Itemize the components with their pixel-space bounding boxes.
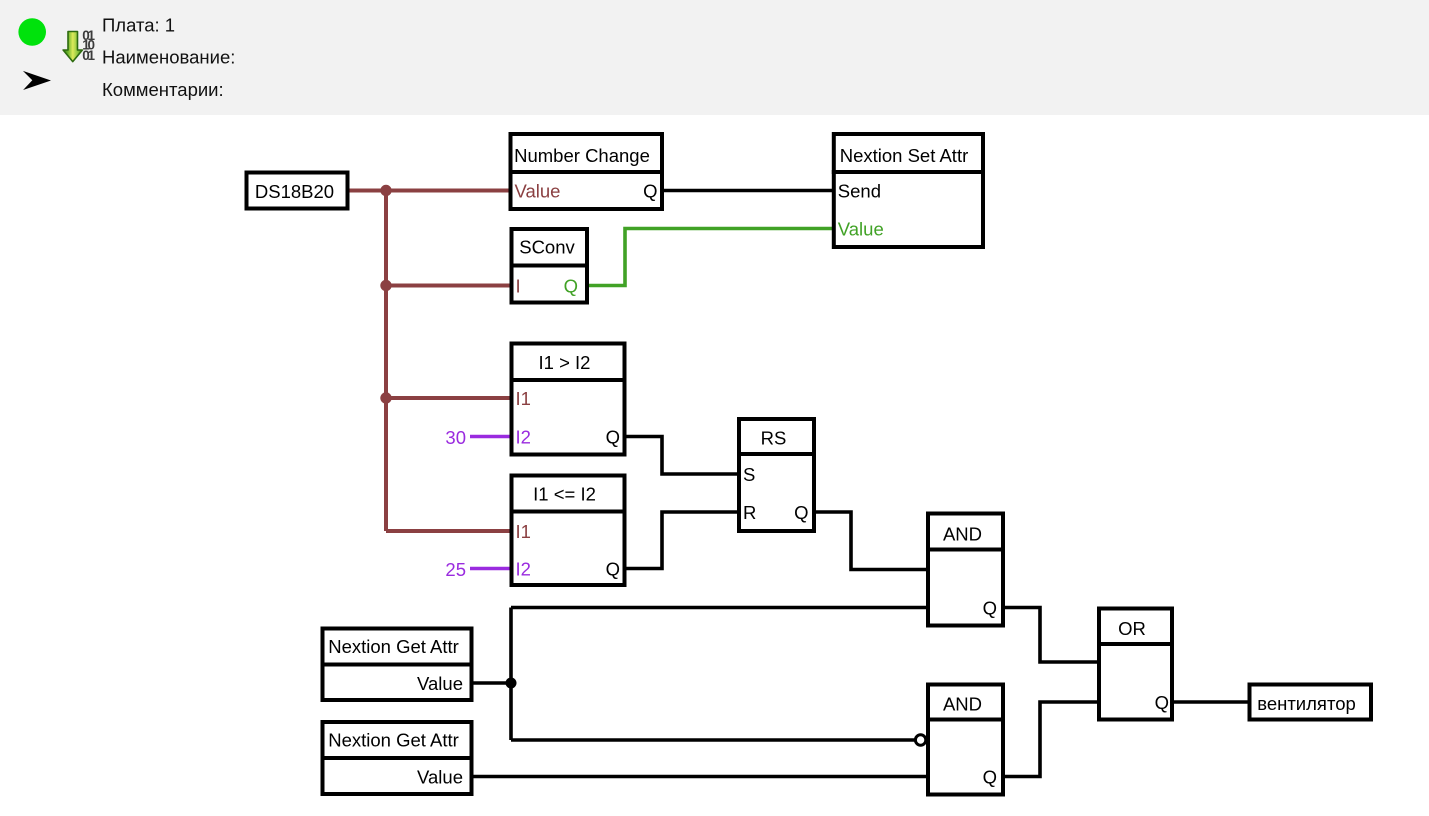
svg-text:Q: Q <box>564 276 578 297</box>
junction dot 1 <box>380 185 391 196</box>
block comparator I1 > I2 <box>510 344 627 455</box>
wire I1<=I2 Q to RS R <box>627 512 738 569</box>
svg-text:Nextion Get Attr: Nextion Get Attr <box>328 730 459 751</box>
svg-text:Q: Q <box>1155 692 1169 713</box>
svg-text:AND: AND <box>943 524 982 545</box>
svg-text:AND: AND <box>943 694 982 715</box>
junction dot 2 <box>380 280 391 291</box>
svg-text:Q: Q <box>643 181 657 202</box>
wire DS18B20 out to Number Change Value (maroon) <box>349 189 510 193</box>
svg-text:SConv: SConv <box>519 237 575 258</box>
block OR <box>1097 609 1174 720</box>
svg-text:вентилятор: вентилятор <box>1257 693 1356 714</box>
inverted input circle AND2 <box>915 735 925 745</box>
wire RS Q to AND1 in1 <box>816 512 926 570</box>
block вентилятор output <box>1250 685 1372 720</box>
wire Nextion Get Attr 1 Value to junction <box>474 681 512 685</box>
svg-text:Value: Value <box>417 673 463 694</box>
toolbar header background <box>0 0 1429 115</box>
svg-text:Q: Q <box>983 598 997 619</box>
junction dot 4 <box>506 678 517 689</box>
wire AND1 Q to OR in1 <box>1005 608 1097 663</box>
junction dot 3 <box>380 392 391 403</box>
svg-text:Q: Q <box>606 559 620 580</box>
svg-text:I1 > I2: I1 > I2 <box>539 352 591 373</box>
svg-text:Q: Q <box>794 502 808 523</box>
wire OR Q to вентилятор <box>1174 700 1248 704</box>
wire maroon to I1<=I2 I1 <box>386 529 511 533</box>
wire to AND1 in2 <box>511 606 926 610</box>
block Nextion Get Attr 2 <box>321 722 474 794</box>
svg-text:Value: Value <box>838 219 884 240</box>
wire SConv Q to Nextion Set Attr Value (green) <box>587 229 832 286</box>
constant 25 stub (purple) <box>470 567 510 570</box>
svg-text:I1: I1 <box>516 388 531 409</box>
svg-text:I1: I1 <box>516 521 531 542</box>
svg-text:Nextion Get Attr: Nextion Get Attr <box>328 636 459 657</box>
svg-text:I1 <= I2: I1 <= I2 <box>533 484 596 505</box>
block Number Change <box>509 134 665 209</box>
wire Nextion Get Attr 2 Value to AND2 in2 <box>474 775 927 779</box>
svg-text:RS: RS <box>761 428 787 449</box>
block comparator I1 <= I2 <box>510 476 627 586</box>
svg-text:Наименование:: Наименование: <box>102 46 235 67</box>
wire maroon to SConv I <box>386 284 511 288</box>
block RS trigger <box>737 419 816 531</box>
block AND1 <box>926 514 1005 626</box>
wire Number Change Q to Nextion Set Attr Send (black) <box>664 189 832 193</box>
svg-text:Value: Value <box>515 181 561 202</box>
block AND2 <box>926 685 1005 795</box>
wire maroon vertical trunk <box>384 191 388 532</box>
wire to AND2 inverted in1 <box>511 738 915 742</box>
svg-text:I: I <box>516 276 521 297</box>
wire maroon to I1>I2 I1 <box>386 396 511 400</box>
wire AND2 Q to OR in2 <box>1005 702 1097 777</box>
svg-text:Value: Value <box>417 767 463 788</box>
block Nextion Get Attr 1 <box>321 629 474 701</box>
svg-text:Send: Send <box>838 181 881 202</box>
upload-to-board icon (green arrow) <box>63 28 95 63</box>
block DS18B20 <box>247 173 348 209</box>
svg-text:R: R <box>743 502 756 523</box>
svg-text:Q: Q <box>606 427 620 448</box>
svg-text:I2: I2 <box>516 559 531 580</box>
run/play black arrow icon <box>23 71 51 90</box>
svg-text:Nextion Set Attr: Nextion Set Attr <box>840 145 969 166</box>
svg-text:I2: I2 <box>516 427 531 448</box>
wire I1>I2 Q to RS S <box>627 437 738 475</box>
svg-text:25: 25 <box>445 559 466 580</box>
svg-text:Комментарии:: Комментарии: <box>102 79 224 100</box>
svg-text:Плата: 1: Плата: 1 <box>102 14 175 35</box>
svg-text:DS18B20: DS18B20 <box>255 181 334 202</box>
block SConv <box>510 229 590 303</box>
status indicator green circle <box>18 18 46 46</box>
svg-text:S: S <box>743 464 755 485</box>
svg-text:Q: Q <box>983 767 997 788</box>
svg-text:Number Change: Number Change <box>514 145 650 166</box>
svg-text:OR: OR <box>1118 618 1146 639</box>
block Nextion Set Attr <box>832 134 985 247</box>
wire junction vertical <box>509 608 513 741</box>
svg-text:30: 30 <box>445 427 466 448</box>
constant 30 stub (purple) <box>470 435 510 438</box>
